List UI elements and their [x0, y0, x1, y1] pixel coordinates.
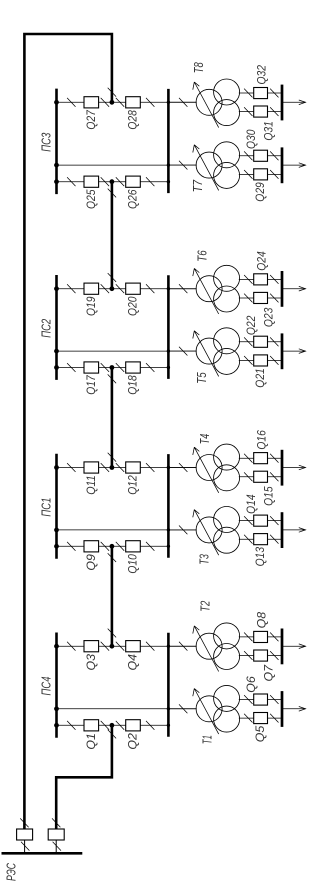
- breaker Q21: [254, 355, 268, 366]
- disconnector tick on Т2 HV feeder: [179, 642, 187, 651]
- disconnector tick after Q21: [270, 356, 278, 365]
- disconnector tick: [67, 363, 75, 372]
- wire: HV feeder to transformer Т3: [168, 529, 196, 531]
- disconnector tick: [116, 642, 124, 651]
- outgoing feeder arrow from Т5 LV busbar: [282, 349, 306, 354]
- breaker Q11: [84, 462, 99, 473]
- breaker Q31: [254, 106, 268, 117]
- wire: LV winding to breaker Q24: [239, 278, 282, 280]
- busbar ПС3 section 1: [55, 89, 58, 195]
- wire: LV winding to breaker Q13: [239, 538, 282, 540]
- wire: HV feeder to transformer Т4: [168, 467, 196, 469]
- breaker Q26: [126, 176, 141, 187]
- junction on busbar 1 / middle feeder: [54, 706, 59, 711]
- junction on busbar 1 / top feeder: [54, 286, 59, 291]
- junction on busbar 2 / middle feeder: [167, 528, 170, 531]
- junction on busbar 2 / middle feeder: [167, 707, 170, 710]
- disconnector tick: [101, 642, 109, 651]
- tap-changer arrow of Т8: [193, 82, 219, 128]
- disconnector tick before Q21: [244, 356, 252, 365]
- switch РЭС feeder 1: [17, 829, 33, 840]
- wire: LV winding to breaker Q23: [239, 297, 282, 299]
- wire: ПС2 top feeder (Q19/Q20): [57, 288, 197, 290]
- disconnector tick before Q22: [244, 337, 252, 346]
- disconnector tick: [146, 363, 154, 372]
- tap-changer arrow of Т5: [193, 331, 219, 377]
- breaker Q25: [84, 176, 99, 187]
- disconnector tick: [67, 642, 75, 651]
- svg-text:Т4: Т4: [197, 434, 212, 445]
- breaker Q32: [254, 88, 268, 99]
- disconnector tick after Q5: [270, 714, 278, 723]
- disconnector tick before Q13: [244, 535, 252, 544]
- busbar ПС4 section 2: [167, 633, 170, 737]
- wire: ПС3 feeder to Т7: [57, 164, 197, 166]
- junction on busbar 1 / middle feeder: [54, 528, 59, 533]
- transformer Т3 (three-winding): [196, 507, 240, 554]
- wire: ПС2 feeder to Т5: [57, 350, 197, 352]
- LV busbar of Т3: [281, 512, 284, 548]
- busbar ПС4 section 1: [55, 633, 58, 738]
- disconnector tick on Т4 HV feeder: [179, 463, 187, 472]
- busbar РЭС: [2, 852, 83, 855]
- svg-text:Q3: Q3: [84, 654, 98, 671]
- wire: РЭС feeder 1 stub: [24, 840, 26, 852]
- disconnector tick: [101, 284, 109, 293]
- disconnector tick before Q31: [244, 107, 252, 116]
- disconnector tick after Q15: [270, 472, 278, 481]
- LV busbar of Т1: [281, 691, 284, 727]
- LV busbar of Т8: [281, 85, 284, 121]
- busbar ПС2 section 2: [167, 275, 170, 379]
- breaker Q22: [254, 336, 268, 347]
- outgoing feeder arrow from Т1 LV busbar: [282, 707, 306, 712]
- breaker Q24: [254, 274, 268, 285]
- svg-text:ПС4: ПС4: [38, 677, 53, 696]
- LV busbar of Т6: [281, 271, 284, 307]
- junction: ring tie tap on ПС4 lower feeder: [110, 723, 115, 728]
- svg-text:Q19: Q19: [84, 296, 98, 316]
- breaker Q10: [126, 541, 141, 552]
- wire: supply line ПС4 to РЭС (ring leg 2): [56, 725, 112, 829]
- junction on busbar 2 / middle feeder: [167, 163, 170, 166]
- junction on busbar 2 / middle feeder: [167, 349, 170, 352]
- disconnector tick before Q6: [244, 695, 252, 704]
- disconnector tick after Q29: [270, 170, 278, 179]
- svg-text:Т3: Т3: [197, 554, 212, 565]
- disconnector tick: [67, 177, 75, 186]
- svg-text:Q30: Q30: [244, 129, 258, 149]
- wire: LV winding to breaker Q22: [239, 341, 282, 343]
- disconnector tick on ring leg 1 near ПС3: [108, 88, 116, 97]
- disconnector tick before Q7: [244, 651, 252, 660]
- outgoing feeder arrow from Т7 LV busbar: [282, 163, 306, 168]
- svg-text:Q4: Q4: [126, 654, 140, 671]
- junction on busbar 1 / top feeder: [54, 100, 59, 105]
- disconnector tick: [101, 463, 109, 472]
- breaker Q1: [84, 720, 99, 731]
- disconnector tick before Q30: [244, 151, 252, 160]
- disconnector tick before Q8: [244, 633, 252, 642]
- disconnector tick: [116, 363, 124, 372]
- svg-text:Q26: Q26: [126, 189, 140, 209]
- wire: HV feeder to transformer Т7: [168, 164, 196, 166]
- outgoing feeder arrow from Т4 LV busbar: [282, 465, 306, 470]
- wire: HV feeder to transformer Т2: [168, 645, 196, 647]
- junction: ring tie tap on ПС1 top feeder: [110, 465, 115, 470]
- disconnector tick: [67, 721, 75, 730]
- svg-text:Q27: Q27: [84, 109, 98, 130]
- disconnector tick after Q13: [270, 535, 278, 544]
- junction on busbar 1 / lower feeder: [54, 365, 59, 370]
- disconnector tick near ПС3: [108, 189, 116, 198]
- disconnector tick near ПС2: [108, 273, 116, 282]
- svg-text:Q21: Q21: [253, 368, 267, 388]
- wire: LV winding to breaker Q6: [239, 699, 282, 701]
- transformer Т2 (three-winding): [196, 623, 240, 670]
- disconnector tick before Q32: [244, 89, 252, 98]
- svg-text:Q14: Q14: [244, 494, 258, 514]
- breaker Q2: [126, 720, 141, 731]
- disconnector tick near ПС2: [108, 374, 116, 383]
- wire: ПС1 top feeder (Q11/Q12): [57, 467, 197, 469]
- transformer Т4 (three-winding): [196, 444, 240, 491]
- breaker Q29: [254, 169, 268, 180]
- svg-text:Q11: Q11: [84, 475, 98, 495]
- wire: tie ПС1-ПС4: [111, 546, 114, 646]
- disconnector tick after Q8: [270, 633, 278, 642]
- tap-changer arrow of Т2: [193, 626, 219, 672]
- disconnector tick: [116, 177, 124, 186]
- disconnector tick before Q14: [244, 516, 252, 525]
- busbar ПС2 section 1: [55, 275, 58, 380]
- svg-text:Q2: Q2: [126, 733, 140, 750]
- disconnector tick before Q16: [244, 454, 252, 463]
- breaker Q5: [254, 713, 268, 724]
- disconnector tick on ring leg 1 near РЭС: [20, 818, 28, 827]
- junction: ring tie tap on ПС2 top feeder: [110, 286, 115, 291]
- disconnector tick after Q7: [270, 651, 278, 660]
- svg-text:Q5: Q5: [253, 725, 267, 742]
- outgoing feeder arrow from Т2 LV busbar: [282, 644, 306, 649]
- junction: ring tie tap on ПС3 lower feeder: [110, 179, 115, 184]
- disconnector tick: [116, 721, 124, 730]
- svg-text:ПС1: ПС1: [38, 498, 53, 517]
- junction on busbar 2 / top feeder: [167, 287, 170, 290]
- svg-text:Q16: Q16: [254, 430, 268, 450]
- svg-text:Q23: Q23: [262, 307, 276, 327]
- disconnector tick: [101, 721, 109, 730]
- LV busbar of Т2: [281, 629, 284, 665]
- disconnector tick on Т7 HV feeder: [179, 161, 187, 170]
- disconnector tick: [67, 542, 75, 551]
- breaker Q14: [254, 515, 268, 526]
- svg-text:Т7: Т7: [190, 179, 205, 192]
- svg-text:Q31: Q31: [262, 121, 276, 141]
- outgoing feeder arrow from Т3 LV busbar: [282, 528, 306, 533]
- disconnector tick before Q24: [244, 275, 252, 284]
- svg-text:Q24: Q24: [254, 251, 268, 271]
- wire: LV winding to breaker Q30: [239, 155, 282, 157]
- disconnector tick after Q30: [270, 151, 278, 160]
- busbar ПС3 section 2: [167, 89, 170, 193]
- junction on busbar 1 / top feeder: [54, 465, 59, 470]
- switch РЭС feeder 2: [48, 829, 64, 840]
- svg-text:Q22: Q22: [244, 315, 258, 335]
- wire: ПС3 top feeder (Q27/Q28): [57, 101, 197, 103]
- breaker Q7: [254, 650, 268, 661]
- breaker Q12: [126, 462, 141, 473]
- disconnector tick: [146, 463, 154, 472]
- svg-text:Q17: Q17: [84, 374, 98, 395]
- wire: LV winding to breaker Q8: [239, 636, 282, 638]
- LV busbar of Т7: [281, 147, 284, 183]
- disconnector tick: [101, 363, 109, 372]
- disconnector tick on Т8 HV feeder: [179, 98, 187, 107]
- disconnector tick after Q31: [270, 107, 278, 116]
- svg-text:Т2: Т2: [198, 600, 213, 612]
- tap-changer arrow of Т4: [193, 447, 219, 493]
- breaker Q18: [126, 362, 141, 373]
- junction on busbar 2 / top feeder: [167, 645, 170, 648]
- svg-text:Т5: Т5: [194, 372, 209, 384]
- disconnector tick after Q23: [270, 294, 278, 303]
- junction on busbar 2 / lower feeder: [167, 724, 170, 727]
- svg-text:Q15: Q15: [262, 486, 276, 506]
- disconnector tick: [101, 98, 109, 107]
- disconnector tick near ПС1: [108, 453, 116, 462]
- wire: LV winding to breaker Q14: [239, 520, 282, 522]
- svg-text:Q1: Q1: [84, 733, 98, 750]
- junction on busbar 1 / lower feeder: [54, 544, 59, 549]
- wire: HV feeder to transformer Т1: [168, 708, 196, 710]
- svg-text:Q8: Q8: [254, 612, 268, 629]
- outgoing feeder arrow from Т6 LV busbar: [282, 286, 306, 291]
- tap-changer arrow of Т7: [193, 145, 219, 191]
- svg-text:Q18: Q18: [126, 375, 140, 395]
- breaker Q15: [254, 471, 268, 482]
- svg-text:ПС3: ПС3: [38, 132, 53, 152]
- junction on busbar 1 / middle feeder: [54, 349, 59, 354]
- disconnector tick near ПС1: [108, 553, 116, 562]
- junction: ring tie tap on ПС3 top feeder: [110, 100, 115, 105]
- disconnector tick: [116, 542, 124, 551]
- disconnector tick: [67, 98, 75, 107]
- svg-text:РЭС: РЭС: [4, 862, 18, 881]
- transformer Т7 (three-winding): [196, 142, 240, 189]
- wire: LV winding to breaker Q32: [239, 92, 282, 94]
- junction on busbar 1 / lower feeder: [54, 179, 59, 184]
- svg-text:Q29: Q29: [253, 182, 267, 202]
- disconnector tick: [146, 542, 154, 551]
- disconnector tick: [146, 177, 154, 186]
- disconnector tick on Т5 HV feeder: [179, 347, 187, 356]
- junction on busbar 2 / top feeder: [167, 466, 170, 469]
- junction on busbar 1 / middle feeder: [54, 163, 59, 168]
- junction on busbar 2 / lower feeder: [167, 545, 170, 548]
- svg-text:Q12: Q12: [126, 475, 140, 495]
- wire: LV winding to breaker Q21: [239, 359, 282, 361]
- svg-text:ПС2: ПС2: [38, 318, 53, 338]
- transformer Т5 (three-winding): [196, 328, 240, 375]
- svg-text:Q10: Q10: [126, 554, 140, 574]
- disconnector tick after Q6: [270, 695, 278, 704]
- disconnector tick after Q14: [270, 516, 278, 525]
- junction on busbar 2 / lower feeder: [167, 366, 170, 369]
- breaker Q30: [254, 150, 268, 161]
- LV busbar of Т5: [281, 333, 284, 369]
- breaker Q27: [84, 97, 99, 108]
- outgoing feeder arrow from Т8 LV busbar: [282, 100, 306, 105]
- breaker Q8: [254, 631, 268, 642]
- breaker Q23: [254, 292, 268, 303]
- wire: LV winding to breaker Q29: [239, 173, 282, 175]
- wire: HV feeder to transformer Т6: [168, 288, 196, 290]
- disconnector tick: [101, 542, 109, 551]
- disconnector tick: [67, 463, 75, 472]
- junction on busbar 1 / top feeder: [54, 644, 59, 649]
- wire: tie ПС3-ПС2: [111, 182, 114, 289]
- breaker Q4: [126, 641, 141, 652]
- disconnector tick below switch 1: [21, 842, 29, 851]
- wire: LV winding to breaker Q16: [239, 457, 282, 459]
- wire: LV winding to breaker Q5: [239, 717, 282, 719]
- junction: ring tie tap on ПС1 lower feeder: [110, 544, 115, 549]
- junction on busbar 2 / top feeder: [167, 101, 170, 104]
- junction: ring tie tap on ПС4 top feeder: [110, 644, 115, 649]
- svg-text:Q7: Q7: [262, 664, 276, 682]
- svg-text:Q9: Q9: [84, 554, 98, 571]
- tap-changer arrow of Т6: [193, 268, 219, 314]
- tap-changer arrow of Т1: [193, 689, 219, 735]
- wire: ПС4 top feeder (Q3/Q4): [57, 645, 197, 647]
- disconnector tick near ПС4: [108, 629, 116, 638]
- disconnector tick after Q22: [270, 337, 278, 346]
- disconnector tick: [146, 721, 154, 730]
- wire: ПС1 lower feeder (Q9/Q10): [57, 545, 169, 547]
- LV busbar of Т4: [281, 450, 284, 486]
- wire: LV winding to breaker Q15: [239, 476, 282, 478]
- transformer Т1 (three-winding): [196, 685, 240, 732]
- svg-text:Q20: Q20: [126, 296, 140, 316]
- tap-changer arrow of Т3: [193, 510, 219, 556]
- svg-text:Q28: Q28: [126, 110, 140, 130]
- disconnector tick: [146, 98, 154, 107]
- disconnector tick on ring leg 2 near РЭС: [52, 818, 60, 827]
- svg-text:Q13: Q13: [253, 547, 267, 567]
- svg-text:Q6: Q6: [244, 676, 258, 693]
- wire: tie ПС2-ПС1: [111, 368, 114, 468]
- wire: supply line РЭС to ПС3 (ring leg 1): [24, 34, 112, 829]
- disconnector tick: [116, 463, 124, 472]
- disconnector tick: [116, 98, 124, 107]
- breaker Q19: [84, 283, 99, 294]
- wire: ПС1 feeder to Т3: [57, 529, 197, 531]
- disconnector tick on Т6 HV feeder: [179, 284, 187, 293]
- breaker Q17: [84, 362, 99, 373]
- disconnector tick on ring leg 2 near ПС4: [108, 730, 116, 739]
- breaker Q6: [254, 694, 268, 705]
- disconnector tick: [101, 177, 109, 186]
- disconnector tick after Q24: [270, 275, 278, 284]
- svg-text:Т1: Т1: [200, 735, 215, 744]
- svg-text:Т8: Т8: [191, 62, 206, 74]
- wire: ПС4 lower feeder (Q1/Q2): [57, 724, 169, 726]
- transformer Т6 (three-winding): [196, 265, 240, 312]
- disconnector tick: [146, 284, 154, 293]
- breaker Q9: [84, 541, 99, 552]
- wire: LV winding to breaker Q7: [239, 655, 282, 657]
- disconnector tick after Q16: [270, 454, 278, 463]
- breaker Q3: [84, 641, 99, 652]
- wire: HV feeder to transformer Т5: [168, 350, 196, 352]
- busbar ПС1 section 1: [55, 454, 58, 559]
- wire: LV winding to breaker Q31: [239, 111, 282, 113]
- disconnector tick: [67, 284, 75, 293]
- disconnector tick before Q5: [244, 714, 252, 723]
- wire: ПС4 feeder to Т1: [57, 708, 197, 710]
- wire: РЭС feeder 2 stub: [55, 840, 57, 852]
- disconnector tick on Т1 HV feeder: [179, 704, 187, 713]
- svg-text:Q32: Q32: [254, 65, 268, 85]
- disconnector tick on Т3 HV feeder: [179, 526, 187, 535]
- disconnector tick before Q23: [244, 294, 252, 303]
- svg-text:Q25: Q25: [84, 189, 98, 209]
- junction: ring tie tap on ПС2 lower feeder: [110, 365, 115, 370]
- breaker Q28: [126, 97, 141, 108]
- svg-text:Т6: Т6: [195, 250, 210, 262]
- disconnector tick: [146, 642, 154, 651]
- disconnector tick after Q32: [270, 89, 278, 98]
- breaker Q13: [254, 534, 268, 545]
- wire: HV feeder to transformer Т8: [168, 101, 196, 103]
- disconnector tick: [116, 284, 124, 293]
- busbar ПС1 section 2: [167, 454, 170, 558]
- wire: ПС3 lower feeder (Q25/Q26): [57, 181, 169, 183]
- disconnector tick before Q29: [244, 170, 252, 179]
- breaker Q16: [254, 453, 268, 464]
- junction on busbar 2 / lower feeder: [167, 180, 170, 183]
- transformer Т8 (three-winding): [196, 79, 240, 126]
- disconnector tick before Q15: [244, 472, 252, 481]
- wire: ПС2 lower feeder (Q17/Q18): [57, 367, 169, 369]
- disconnector tick below switch 2: [53, 842, 61, 851]
- breaker Q20: [126, 283, 141, 294]
- junction on busbar 1 / lower feeder: [54, 723, 59, 728]
